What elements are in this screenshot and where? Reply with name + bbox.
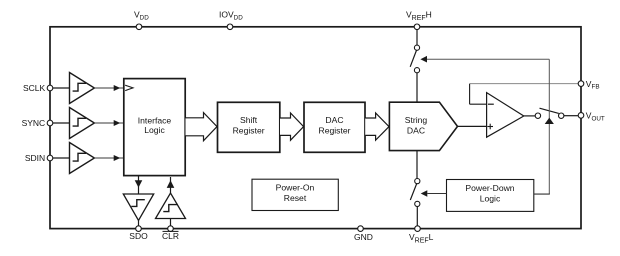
block shift register bbox=[218, 102, 280, 152]
pin SYNC bbox=[22, 118, 53, 128]
block power-down logic bbox=[447, 180, 534, 212]
pin VREFH bbox=[406, 10, 432, 30]
wire SYNC buffer to interface logic bbox=[94, 120, 123, 126]
svg-text:GND: GND bbox=[354, 232, 373, 242]
svg-text:SDIN: SDIN bbox=[25, 153, 45, 163]
pin SDIN bbox=[25, 153, 53, 163]
svg-text:SCLK: SCLK bbox=[23, 83, 46, 93]
svg-text:Interface: Interface bbox=[138, 115, 172, 125]
svg-text:Register: Register bbox=[319, 126, 351, 136]
buffer U1 SCLK schmitt trigger bbox=[70, 73, 95, 104]
pin VOUT bbox=[578, 111, 605, 123]
buffer U3 SDIN schmitt trigger bbox=[70, 143, 95, 174]
block string DAC bbox=[389, 102, 457, 150]
wire SDO buffer to pin bbox=[138, 220, 140, 226]
svg-text:DAC: DAC bbox=[325, 115, 343, 125]
wire op-amp to switch S3 bbox=[524, 115, 535, 117]
svg-text:String: String bbox=[405, 115, 428, 125]
switch S3 output bbox=[535, 108, 564, 118]
pin VFB bbox=[578, 79, 599, 91]
bus arrow shift register to DAC register bbox=[280, 113, 304, 140]
chip outline box bbox=[50, 27, 581, 229]
svg-text:Logic: Logic bbox=[480, 194, 501, 204]
wire power-down logic to control vertical bbox=[534, 193, 550, 195]
op-amp A1 output buffer bbox=[487, 93, 524, 138]
wire CLR pin to buffer bbox=[170, 219, 172, 227]
svg-text:Logic: Logic bbox=[144, 125, 165, 135]
svg-text:CLR: CLR bbox=[162, 231, 179, 241]
wire SCLK buffer to interface logic bbox=[94, 85, 123, 91]
wire power-down control to switch S1 bbox=[420, 56, 549, 63]
svg-text:Power-Down: Power-Down bbox=[465, 183, 514, 193]
wire switch S1 to string DAC bbox=[416, 73, 418, 102]
switch S2 VREFL bbox=[410, 179, 420, 207]
switch S1 VREFH bbox=[410, 45, 419, 73]
bus arrow interface logic to shift register bbox=[186, 113, 218, 141]
wire string DAC to op-amp bbox=[458, 125, 487, 127]
wire CLR buffer to interface logic bbox=[167, 177, 175, 193]
svg-text:SDO: SDO bbox=[129, 231, 148, 241]
buffer U5 CLR schmitt trigger bbox=[156, 193, 186, 219]
svg-text:VREFH: VREFH bbox=[406, 10, 432, 23]
svg-text:IOVDD: IOVDD bbox=[219, 10, 243, 22]
pin CLR bbox=[162, 226, 179, 241]
svg-text:DAC: DAC bbox=[407, 126, 425, 136]
wire SCLK to buffer bbox=[53, 87, 70, 89]
wire SDIN to buffer bbox=[53, 157, 70, 159]
wire SYNC to buffer bbox=[53, 122, 70, 124]
svg-text:SYNC: SYNC bbox=[22, 118, 46, 128]
block interface logic bbox=[124, 79, 185, 176]
block power-on reset bbox=[252, 179, 338, 210]
wire switch S3 to VOUT pin bbox=[564, 115, 578, 117]
svg-text:VOUT: VOUT bbox=[586, 111, 605, 123]
wire interface logic to SDO buffer bbox=[135, 176, 143, 194]
bus arrow DAC register to string DAC bbox=[365, 113, 389, 140]
wire string DAC to switch S2 bbox=[416, 151, 418, 179]
pin IOVDD bbox=[219, 10, 243, 30]
pin VDD bbox=[134, 10, 149, 30]
buffer U2 SYNC schmitt trigger bbox=[70, 108, 95, 139]
svg-text:VREFL: VREFL bbox=[409, 232, 434, 245]
pin VREFL bbox=[409, 226, 434, 245]
wire power-down control vertical bbox=[545, 59, 554, 194]
wire SDIN buffer to interface logic bbox=[94, 155, 123, 161]
block DAC register bbox=[304, 102, 365, 152]
svg-text:Power-On: Power-On bbox=[276, 183, 315, 193]
svg-text:Register: Register bbox=[233, 126, 265, 136]
wire VFB feedback bbox=[470, 84, 579, 105]
pin SCLK bbox=[23, 83, 53, 93]
svg-text:VFB: VFB bbox=[586, 79, 600, 91]
wire power-down control to switch S2 bbox=[421, 190, 447, 197]
svg-text:Shift: Shift bbox=[240, 115, 258, 125]
svg-text:Reset: Reset bbox=[284, 193, 307, 203]
svg-text:VDD: VDD bbox=[134, 10, 149, 22]
buffer U4 SDO output driver bbox=[123, 194, 153, 220]
pin GND bbox=[354, 226, 373, 242]
wire switch S2 to VREFL pin bbox=[416, 207, 418, 227]
wire VREFH pin to switch bbox=[416, 30, 418, 45]
clock input chevron bbox=[125, 85, 133, 90]
pin SDO bbox=[129, 226, 148, 241]
